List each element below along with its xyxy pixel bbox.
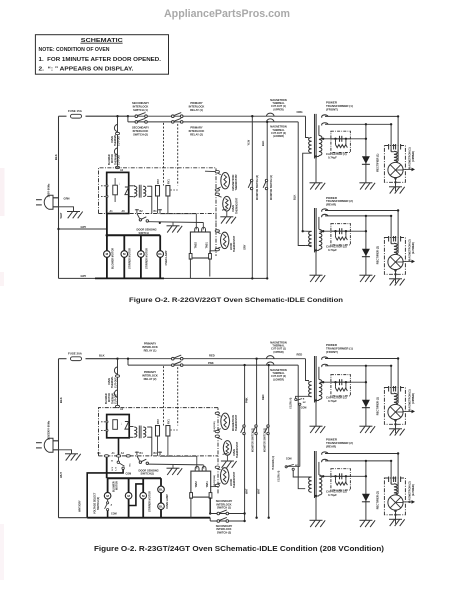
wire T1 secondary top	[318, 367, 320, 380]
svg-text:NC: NC	[303, 402, 307, 404]
svg-text:RECTIFIER (1): RECTIFIER (1)	[376, 153, 380, 171]
ground	[389, 187, 405, 194]
magnetron thermal cut-out (2)	[267, 119, 275, 122]
svg-text:CUT-OUT: CUT-OUT	[115, 393, 118, 404]
svg-text:MONITOR SWITCH (1): MONITOR SWITCH (1)	[265, 428, 267, 452]
svg-text:MONITOR SWITCH (1): MONITOR SWITCH (1)	[270, 175, 273, 200]
svg-text:0.74μF: 0.74μF	[328, 248, 337, 252]
svg-text:NC: NC	[130, 463, 132, 467]
monitor switch on PNK	[241, 425, 246, 435]
svg-text:OL: OL	[159, 504, 163, 508]
magnetron thermal cut-out (1) sch2 label	[270, 341, 287, 354]
svg-text:PRIMARY: PRIMARY	[144, 370, 157, 374]
svg-text:CUT-OUT: CUT-OUT	[117, 135, 120, 146]
node GRY tap	[57, 228, 59, 230]
primary interlock relay (1) label	[189, 101, 205, 112]
voltage select switch (4) upper	[295, 398, 297, 400]
wire ground stub (door switch 2)	[172, 465, 174, 468]
wire triac T1 top leads	[195, 214, 197, 230]
wire rail2 drop	[127, 116, 129, 122]
svg-text:GRY: GRY	[81, 225, 87, 229]
svg-text:THERMOSTAT: THERMOSTAT	[233, 471, 236, 488]
wire rectifier 2 feed	[365, 216, 367, 275]
magnetron tube M1 UPPER	[384, 146, 405, 183]
triac (oven 2)	[191, 471, 211, 497]
voltage select switch (4) lower	[285, 466, 287, 468]
hood thermostat sch2	[221, 468, 229, 484]
svg-text:(UPPER): (UPPER)	[411, 151, 415, 162]
svg-text:STIRRER MOTOR: STIRRER MOTOR	[129, 248, 132, 269]
secondary interlock switch (1) label	[132, 101, 149, 112]
transformer T2 primary winding	[309, 231, 312, 246]
ground (rectifier 2)	[359, 520, 375, 527]
svg-text:OVEN LAMP: OVEN LAMP	[166, 494, 169, 509]
wire rail2	[128, 121, 298, 123]
rectifier D2	[362, 494, 370, 502]
filament rail top (T2)	[325, 453, 398, 455]
oven thermal cut-out	[114, 125, 117, 132]
svg-text:INTERLOCK: INTERLOCK	[133, 129, 149, 133]
svg-text:B4: B4	[140, 452, 144, 455]
svg-text:RECTIFIER (1): RECTIFIER (1)	[376, 397, 380, 415]
magnetron thermal cut-out (2) sch2 label	[270, 369, 287, 382]
wire T2 primary top lead	[305, 230, 311, 232]
magnetron thermal cut-out (1)	[267, 113, 275, 116]
svg-text:INTERLOCK: INTERLOCK	[189, 129, 205, 133]
svg-text:CUT-OUT: CUT-OUT	[114, 377, 117, 388]
wire plug to rail	[53, 197, 59, 199]
svg-text:B: B	[303, 398, 305, 400]
magnetron thermal cut-out (2) label	[270, 126, 287, 139]
transformer T2 filament winding	[322, 209, 328, 217]
svg-text:INTERLOCK: INTERLOCK	[142, 345, 158, 349]
secondary interlock switch (2)	[135, 118, 147, 123]
monitor switch (1)	[263, 179, 268, 189]
control unit U1 (power unit)	[107, 172, 129, 213]
svg-text:FUSE 15A: FUSE 15A	[68, 109, 83, 113]
svg-text:INTERLOCK: INTERLOCK	[142, 373, 158, 377]
wire	[397, 211, 399, 241]
rectifier D2	[362, 249, 370, 257]
wire T2 secondary to ground	[315, 250, 317, 275]
node J1	[127, 115, 129, 117]
svg-text:PNK: PNK	[244, 397, 248, 403]
svg-text:(REAR): (REAR)	[326, 444, 336, 448]
svg-text:(REAR): (REAR)	[326, 203, 336, 207]
wire HV branch 1	[320, 381, 366, 383]
svg-text:RECTIFIER (2): RECTIFIER (2)	[376, 491, 380, 509]
svg-text:(LOWER): (LOWER)	[411, 484, 415, 496]
svg-text:THERMOSTAT: THERMOSTAT	[235, 197, 238, 214]
svg-text:A4: A4	[121, 452, 125, 455]
oven lamp OL2 sch2	[158, 503, 165, 510]
wire interlock line 1	[210, 513, 244, 515]
svg-text:GRY: GRY	[242, 244, 246, 250]
svg-text:RY1: RY1	[168, 179, 171, 184]
svg-text:WHT/GRY: WHT/GRY	[78, 500, 81, 512]
svg-text:RED: RED	[261, 394, 265, 400]
hood thermostat	[221, 232, 229, 248]
svg-text:↓: ↓	[121, 421, 123, 425]
wire stirrer branch b	[142, 478, 144, 518]
svg-text:SWITCH: SWITCH	[139, 231, 149, 235]
wire T1 primary bottom link	[303, 153, 312, 231]
svg-text:NOTE: CONDITION OF OVEN: NOTE: CONDITION OF OVEN	[39, 47, 110, 53]
svg-text:Figure O-2. R-23GT/24GT Oven: Figure O-2. R-23GT/24GT Oven SChematic-I…	[94, 546, 384, 553]
svg-text:COM: COM	[111, 513, 117, 516]
wire	[395, 270, 397, 284]
filament rail bottom (T2)	[325, 215, 391, 217]
svg-text:B1: B1	[98, 452, 102, 455]
svg-text:SWITCH (2): SWITCH (2)	[97, 497, 100, 510]
ground (oven thermostat)	[220, 217, 236, 224]
secondary interlock switch (1) sch2	[217, 510, 229, 515]
svg-text:RELAY (1): RELAY (1)	[144, 348, 157, 352]
svg-text:MONITOR SWITCH (2): MONITOR SWITCH (2)	[256, 175, 259, 200]
ground (T2 secondary)	[310, 275, 326, 282]
bottom rail sch2	[87, 517, 210, 519]
svg-text:A: A	[111, 503, 113, 506]
svg-text:MOTOR: MOTOR	[116, 481, 119, 490]
thermostat terminal b2	[215, 430, 219, 432]
svg-text:OVEN LAMP: OVEN LAMP	[165, 250, 168, 265]
voltage select switch (1) contact	[107, 500, 109, 502]
svg-text:SECONDARY: SECONDARY	[132, 101, 149, 105]
wire stirrer branch 1	[123, 235, 125, 278]
node T1 secondary bottom	[315, 155, 317, 157]
wire	[397, 454, 399, 481]
ground (door switch)	[167, 226, 183, 233]
svg-text:BLK: BLK	[261, 141, 265, 146]
relay RY2 dashed link sch2	[163, 366, 165, 425]
svg-text:120V 60Hz: 120V 60Hz	[47, 183, 51, 197]
svg-text:(UPPER): (UPPER)	[273, 108, 283, 111]
svg-text:BLK: BLK	[59, 397, 63, 403]
wire blower branch 2	[107, 478, 109, 499]
svg-text:STIRRER MOTOR: STIRRER MOTOR	[148, 491, 151, 512]
monitor switch (1) sch2	[265, 425, 270, 435]
svg-text:BLK: BLK	[99, 354, 105, 358]
control unit internals	[113, 185, 118, 195]
svg-text:A1: A1	[112, 452, 116, 455]
wire oven thermostat 2 to ground	[226, 455, 228, 461]
wire triac to rail left	[189, 258, 191, 278]
wire triac to rail right	[209, 258, 211, 276]
svg-text:AppliancePartsPros.com: AppliancePartsPros.com	[164, 8, 290, 20]
transformer T1 primary winding	[309, 138, 312, 153]
wire top rail to junction	[86, 115, 128, 117]
wire plug 2 to rail	[53, 440, 59, 442]
svg-text:WHT: WHT	[246, 488, 249, 494]
wire thermostat to ground	[226, 211, 228, 217]
relay RY2 actuation dashed link	[163, 123, 165, 186]
node J2	[116, 358, 118, 360]
svg-text:STIRRER MOTOR: STIRRER MOTOR	[146, 248, 149, 269]
svg-text:A6: A6	[122, 210, 126, 213]
svg-text:COM: COM	[126, 473, 132, 476]
transformer T1 secondary winding	[319, 380, 322, 400]
svg-text:MAGNETRON (1): MAGNETRON (1)	[407, 389, 411, 411]
svg-text:A2: A2	[120, 408, 124, 411]
capacitor C2	[331, 469, 351, 490]
svg-text:BLK(230V): BLK(230V)	[214, 421, 216, 432]
svg-text:THERMOSTAT: THERMOSTAT	[236, 441, 239, 458]
wire HV branch 2	[320, 230, 366, 232]
control unit entry terminal	[115, 166, 119, 168]
svg-text:BLK: BLK	[54, 154, 58, 160]
relay coil RY1	[166, 186, 170, 197]
svg-text:THERMOSTAT: THERMOSTAT	[233, 235, 236, 252]
capacitor C1	[331, 375, 351, 396]
thermostat terminal a	[215, 171, 219, 173]
oven thermostat sch2	[223, 441, 231, 456]
wire T2 primary bottom lead	[305, 244, 311, 246]
svg-text:A1: A1	[110, 210, 114, 213]
magnetron thermal cut-out (2) sch2	[267, 362, 275, 365]
wire interlock line 2	[210, 520, 244, 522]
primary interlock relay (1) contact sch2	[172, 355, 184, 360]
filament rail bottom (T2)	[325, 460, 391, 462]
wire T2 secondary top	[318, 462, 320, 475]
thermostat terminal b	[215, 189, 219, 191]
rectifier D1	[362, 400, 370, 408]
svg-text:(FRONT): (FRONT)	[326, 350, 338, 354]
svg-text:WHT: WHT	[59, 472, 63, 478]
wire monitor 2 line sch2	[256, 359, 258, 518]
wire oven lamp branch	[159, 235, 161, 278]
svg-text:B1: B1	[154, 210, 158, 213]
thermostat terminal d2	[215, 466, 219, 468]
monitor switch (2) sch2	[253, 425, 258, 435]
transformer T2 secondary winding	[319, 229, 322, 249]
node T2 secondary bottom	[315, 495, 317, 497]
control enclosure 2 border	[99, 408, 219, 494]
wire control to bus	[106, 214, 108, 236]
control unit 2 internals	[113, 420, 118, 430]
magnetron thermostat	[221, 173, 230, 189]
wire T2 secondary top	[318, 217, 320, 230]
blower motor BM	[104, 251, 111, 258]
svg-text:PNK: PNK	[208, 361, 214, 365]
primary interlock relay (2) contact	[172, 118, 184, 123]
transformer T2 primary winding	[309, 477, 312, 492]
rectifier D1	[362, 156, 370, 164]
power plug P2	[44, 438, 53, 452]
door sensing switch	[137, 214, 140, 219]
ground (T2 secondary)	[310, 520, 326, 527]
svg-text:SWITCH(1): SWITCH(1)	[141, 472, 155, 476]
svg-text:(LOWER): (LOWER)	[273, 378, 284, 381]
svg-text:RELAY (2): RELAY (2)	[190, 133, 203, 137]
wire chain to triac	[210, 251, 218, 254]
svg-text:0.74μF: 0.74μF	[328, 399, 337, 403]
wire BLK drop to T2 primary	[298, 122, 305, 246]
ground	[389, 519, 405, 526]
wire bold left feed	[87, 469, 123, 517]
svg-text:TAB2: TAB2	[194, 242, 197, 249]
svg-text:SWITCH (1): SWITCH (1)	[217, 506, 231, 510]
svg-text:YLW/GRN (4): YLW/GRN (4)	[272, 456, 275, 470]
power transformer T2 core	[314, 208, 316, 252]
wire left rail 2	[58, 359, 60, 518]
wire oven lamp branch 2	[160, 478, 162, 518]
wire triac2 top leads	[196, 456, 198, 469]
relay RY1 actuation dashed link	[177, 124, 179, 186]
wire	[395, 178, 397, 192]
wire rectifier 1 feed	[365, 124, 367, 183]
stirrer motor SM sch2 b	[140, 492, 147, 499]
svg-text:MAGNETRON (2): MAGNETRON (2)	[407, 481, 411, 503]
node T1 secondary bottom	[315, 399, 317, 401]
svg-text:SWITCH (1): SWITCH (1)	[133, 108, 148, 112]
svg-text:RY1: RY1	[168, 419, 171, 424]
svg-text:SECONDARY: SECONDARY	[132, 126, 149, 130]
primary interlock relay (1) contact	[172, 113, 184, 118]
wire rectifier 2 feed	[365, 461, 367, 520]
filament rail top (T1)	[325, 115, 398, 117]
wire monitor switch 1 line	[266, 122, 268, 279]
transformer T1 filament winding	[322, 115, 328, 126]
magnetron tube M2 LOWER	[384, 238, 405, 275]
svg-text:WHT: WHT	[59, 212, 63, 218]
svg-text:MONITOR SWITCH (2): MONITOR SWITCH (2)	[252, 428, 254, 452]
svg-text:V.S.SW (4): V.S.SW (4)	[289, 397, 292, 409]
secondary interlock switch (1) sch2 label	[216, 499, 233, 510]
svg-text:CUT-OUT: CUT-OUT	[118, 154, 121, 165]
wire	[397, 359, 399, 391]
svg-text:H.V: H.V	[112, 466, 114, 470]
thermostat terminal e2	[215, 484, 219, 486]
wire bottom rail GRY	[59, 277, 268, 279]
wire L2 top rail segment	[59, 358, 67, 360]
wire plug ground lead	[53, 207, 74, 212]
svg-text:TAB2: TAB2	[195, 481, 198, 488]
svg-text:COM: COM	[286, 457, 292, 460]
svg-text:OL: OL	[159, 488, 163, 492]
thermostat terminal c	[215, 193, 219, 195]
svg-text:0.74μF: 0.74μF	[328, 493, 337, 497]
svg-text:GRN: GRN	[64, 196, 70, 200]
transformer T1 primary winding	[309, 382, 312, 397]
thermostat terminal e	[215, 248, 219, 250]
svg-text:RED: RED	[297, 353, 303, 357]
svg-text:RECTIFIER (2): RECTIFIER (2)	[376, 246, 380, 264]
wire T1 secondary top	[318, 125, 320, 135]
svg-text:RED: RED	[209, 353, 215, 357]
motor bus	[107, 234, 160, 236]
svg-text:NC: NC	[295, 465, 299, 467]
wire ORG drop to T1 primary	[306, 116, 309, 137]
relay coil RY1 sch2	[166, 426, 170, 437]
wire B3 to triac2	[160, 455, 197, 457]
svg-text:OL: OL	[158, 252, 162, 256]
ground (rectifier 2)	[359, 275, 375, 282]
secondary interlock switch (2) label	[132, 126, 149, 137]
magnetron thermostat sch2	[221, 413, 230, 429]
wire triac2 right to interlock node	[209, 497, 211, 513]
svg-text:(UPPER): (UPPER)	[411, 393, 415, 404]
control unit 2 entry terminal	[115, 405, 119, 407]
wire A4 drop	[118, 438, 120, 456]
wire PNK drop to T2 sch2	[298, 365, 305, 489]
wire plug 2 ground lead	[53, 450, 72, 454]
svg-text:PRIMARY: PRIMARY	[190, 126, 203, 130]
primary interlock relay (2) contact sch2	[172, 362, 184, 367]
magnetron tube M2 LOWER	[384, 478, 405, 515]
stirrer motor SM1	[121, 251, 128, 258]
ground (T1 secondary)	[310, 426, 326, 433]
svg-text:THERMOSTAT: THERMOSTAT	[235, 174, 238, 191]
transformer T1 filament winding	[322, 357, 328, 367]
wire thermal cutout column 2	[117, 359, 119, 405]
wire T2 primary top lead sch2	[293, 470, 311, 477]
svg-text:YLW: YLW	[246, 139, 250, 145]
transformer T2 filament winding	[322, 452, 328, 462]
control enclosure border	[99, 168, 217, 256]
fuse F2 20A	[71, 357, 82, 361]
monitor switch (2)	[248, 179, 253, 189]
filament rail bottom (T1)	[325, 123, 391, 125]
svg-text:(LOWER): (LOWER)	[273, 135, 284, 138]
svg-text:GRY: GRY	[81, 274, 87, 278]
note box	[35, 35, 168, 74]
wire VS4 COM down	[299, 405, 301, 466]
wire stirrer branch sch2	[128, 478, 130, 518]
wire T2 secondary to ground	[315, 496, 317, 520]
svg-text:SWITCH-(2): SWITCH-(2)	[217, 531, 231, 535]
svg-text:INTERLOCK: INTERLOCK	[133, 105, 149, 109]
capacitor C1	[331, 131, 351, 152]
door sensing switch (1) sch2	[137, 456, 140, 461]
svg-text:TAB1: TAB1	[206, 242, 209, 249]
stirrer motor SM2	[138, 251, 145, 258]
motor bus 2	[107, 477, 161, 479]
wire PNK vertical	[244, 365, 246, 521]
fuse F1 15A	[71, 114, 82, 118]
svg-text:208/230V 60Hz: 208/230V 60Hz	[47, 420, 51, 440]
svg-text:RY2: RY2	[157, 179, 160, 184]
primary interlock relay (1) label sch2	[142, 342, 158, 353]
wire left rail	[58, 116, 60, 278]
svg-text:THERMOSTAT: THERMOSTAT	[235, 414, 238, 431]
svg-text:B: B	[111, 461, 113, 463]
svg-text:COM: COM	[301, 407, 307, 410]
svg-text:B2: B2	[140, 210, 144, 213]
transformer T2 secondary winding	[319, 475, 322, 495]
blower motor BM2	[104, 492, 111, 499]
wire blower branch	[106, 235, 108, 278]
svg-text:MAGNETRON (1): MAGNETRON (1)	[407, 147, 411, 169]
wire T1 secondary to ground	[315, 157, 317, 183]
relay RY1 dashed link sch2	[177, 367, 179, 425]
svg-text:PRIMARY: PRIMARY	[190, 101, 203, 105]
wire	[397, 116, 399, 148]
primary interlock relay (2) label	[189, 126, 205, 137]
capacitor C2	[331, 224, 351, 245]
svg-text:2. “: ” APPEARS ON DISPLAY.: 2. “: ” APPEARS ON DISPLAY.	[39, 66, 135, 72]
ground (oven thermostat 2)	[221, 461, 237, 468]
thermostat terminal c2	[215, 435, 219, 437]
wire monitor 1 line sch2	[268, 365, 270, 518]
svg-text:(FRONT): (FRONT)	[326, 107, 338, 111]
svg-text:B3: B3	[154, 452, 158, 455]
ground (plug 2)	[65, 454, 81, 461]
relay coil RY2 sch2	[156, 426, 160, 437]
wire	[395, 510, 397, 524]
relay coil RY2	[156, 186, 160, 197]
oven lamp OL1 sch2	[158, 486, 165, 493]
svg-text:BLOWER MOTOR: BLOWER MOTOR	[111, 248, 114, 269]
